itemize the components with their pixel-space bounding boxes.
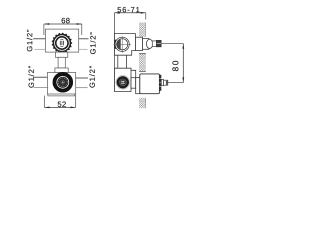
label G1/2 lower-right [89, 66, 95, 88]
bottom cartridge body [140, 74, 160, 94]
label G1/2 lower-left [28, 66, 33, 88]
dimension text 56-71 [118, 7, 140, 12]
bottom port knurled face [57, 77, 68, 88]
label G1/2 upper-left [27, 30, 33, 52]
label G1/2 upper-right [90, 33, 96, 55]
side view top port center lines [113, 36, 131, 53]
bottom port heavy ring [55, 74, 72, 91]
neck between ports [58, 57, 65, 68]
side view top port circle [115, 37, 129, 51]
side view upper body block [115, 34, 136, 56]
bottom cartridge ribbed ring [159, 75, 161, 91]
top port pipe stub lines left [33, 39, 45, 50]
bottom cartridge leader line to 80 dim [168, 82, 184, 84]
dimension 80 right side [182, 44, 184, 83]
bottom port flange box front view [47, 73, 75, 95]
wall hatch lower block [139, 98, 146, 108]
dimension 68 top of front view [44, 23, 82, 35]
top cartridge splined tip [156, 40, 161, 47]
top port gear ring [52, 33, 72, 53]
side view top port inlet stub [115, 40, 118, 49]
top port inner dark ring [56, 37, 68, 49]
side view bottom port face detail [119, 79, 126, 86]
top cartridge stem [152, 41, 156, 47]
wall hatch middle block [139, 53, 146, 71]
side view body neck [118, 55, 127, 68]
top port socket detail [60, 39, 63, 46]
top cartridge base [136, 37, 143, 50]
bottom cartridge flange [136, 78, 140, 94]
wall hatch upper block [139, 23, 146, 37]
dimension 52 bottom of front view [44, 94, 75, 108]
neck top cap between ports [55, 52, 67, 57]
top cartridge leader line to 80 dim [161, 43, 183, 45]
top cartridge dome [146, 39, 152, 48]
bottom cartridge connector [131, 78, 136, 89]
neck bottom cap between ports [55, 68, 68, 73]
side view lower body block [115, 68, 132, 91]
bottom cartridge tip [166, 81, 168, 85]
side view top port dark crescent [117, 39, 121, 49]
bottom port lower tab [48, 94, 75, 96]
top port pipe stub lines right [79, 39, 89, 50]
top port flange box front view [45, 29, 78, 52]
dimension text 80 [172, 61, 178, 71]
dimension 56-71 top of side view [115, 12, 146, 20]
side view bottom port heavy ring [118, 77, 128, 87]
dimension text 68 [62, 18, 70, 23]
bottom cartridge step 2 [164, 80, 168, 85]
side view bottom port outer faint circle [116, 75, 130, 89]
bottom port pipe stub lines left [33, 77, 48, 87]
bottom cartridge step 1 [161, 79, 163, 85]
top cartridge mid body [143, 38, 149, 49]
side view body back edge [114, 13, 116, 92]
dimension text 52 [58, 102, 66, 107]
bottom port pipe stub lines right [76, 78, 88, 88]
bottom cartridge step from body [131, 70, 136, 77]
